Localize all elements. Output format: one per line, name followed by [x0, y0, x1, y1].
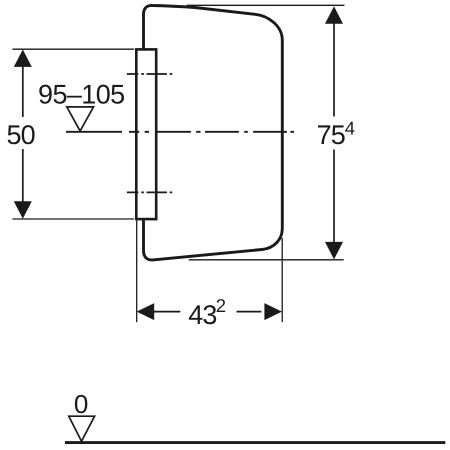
- svg-text:43: 43: [188, 300, 216, 330]
- svg-text:50: 50: [6, 120, 34, 150]
- svg-text:95–105: 95–105: [38, 79, 125, 109]
- zero level triangle: [69, 416, 95, 441]
- mounting rail: [136, 49, 156, 219]
- dim 75 top extension line: [187, 4, 345, 6]
- dim 43 line left segment: [153, 311, 180, 313]
- dim 75 arrow down: [325, 242, 343, 260]
- svg-text:0: 0: [74, 389, 88, 419]
- cistern body outline: [144, 5, 283, 259]
- svg-text:75: 75: [317, 120, 345, 150]
- dim 43 arrow right: [264, 303, 282, 320]
- svg-text:4: 4: [345, 117, 355, 138]
- dim 50 arrow up: [14, 50, 32, 67]
- dim 50 line upper segment: [22, 64, 24, 117]
- dim 75 line lower segment: [333, 150, 335, 245]
- dim 75 arrow up: [325, 6, 343, 24]
- dim 43 right extension line: [281, 238, 283, 322]
- dim 43 line right segment: [237, 311, 262, 313]
- dim 43 arrow left: [137, 303, 155, 320]
- dim 43 left extension line: [136, 221, 138, 323]
- dim 50 arrow down: [14, 201, 32, 218]
- dim 75 bottom extension line: [189, 259, 344, 261]
- svg-text:2: 2: [216, 295, 226, 316]
- level triangle 95-105: [67, 107, 94, 131]
- dim 50 top extension line: [12, 48, 134, 50]
- dim 50 bottom extension line: [12, 218, 134, 220]
- dim 50 line lower segment: [22, 149, 24, 203]
- lower fixing centerline: [127, 191, 172, 193]
- upper fixing centerline: [127, 73, 172, 75]
- horizontal centerline: [66, 131, 294, 133]
- floor line: [65, 441, 445, 444]
- dim 75 line upper segment: [333, 22, 335, 117]
